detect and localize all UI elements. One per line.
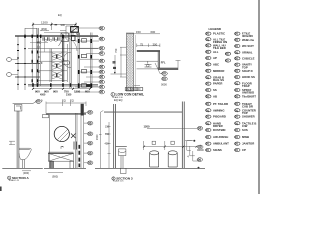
plan keynote bubble 1	[99, 26, 105, 30]
legend row BR1	[235, 102, 253, 109]
elevation keynote bubble 6	[84, 161, 93, 165]
elevation right pilaster dark	[81, 104, 84, 116]
svg-text:00: 00	[226, 52, 230, 56]
section A top line	[13, 102, 33, 104]
legend row R6	[235, 63, 253, 70]
svg-text:00: 00	[198, 127, 202, 131]
svg-text:WC SUIT: WC SUIT	[242, 44, 254, 48]
svg-text:00: 00	[235, 69, 239, 73]
svg-text:00: 00	[206, 102, 210, 106]
elevation left box	[43, 115, 49, 118]
svg-text:00: 00	[88, 141, 92, 145]
svg-text:WHB c/w: WHB c/w	[242, 38, 255, 42]
svg-text:00: 00	[235, 57, 239, 61]
interior line y32	[44, 32, 68, 34]
svg-text:AWNING: AWNING	[213, 108, 225, 112]
wc fixture 2	[82, 54, 87, 57]
elev2 left dim line	[99, 111, 103, 169]
legend row BR2	[235, 108, 256, 115]
elev2 long rail line	[104, 111, 182, 114]
section A top bubble	[36, 100, 41, 104]
detail drain trap	[145, 61, 152, 67]
svg-text:00: 00	[235, 63, 239, 67]
svg-text:HOOK SS: HOOK SS	[242, 75, 255, 79]
plan keynote leaders	[72, 28, 99, 92]
detail keynote bubble 1	[155, 63, 167, 76]
legend row BL5	[206, 128, 226, 132]
detail caption number	[111, 93, 115, 97]
elevation right wall lines	[76, 114, 77, 169]
plan keynote bubble 10	[99, 80, 105, 84]
svg-text:(450): (450)	[41, 27, 47, 31]
svg-text:00: 00	[235, 95, 239, 99]
svg-text:SUS: SUS	[242, 128, 248, 132]
svg-text:00: 00	[88, 132, 92, 136]
section A cistern box	[14, 105, 22, 112]
svg-text:150: 150	[105, 126, 110, 129]
wall stop valve 1	[152, 141, 155, 144]
fixture circles row	[45, 39, 57, 41]
svg-text:(300): (300)	[23, 171, 29, 175]
elev2 basin pipe	[121, 156, 123, 168]
section A dim ticks	[9, 141, 15, 144]
detail right dim riser	[176, 60, 181, 70]
plan keynote bubble 11	[99, 85, 105, 89]
floor drain circle	[37, 46, 39, 48]
svg-text:PT. T/HLDR: PT. T/HLDR	[213, 102, 228, 106]
svg-text:MIRROR: MIRROR	[213, 69, 224, 73]
section A wall double line	[17, 111, 19, 168]
svg-text:00: 00	[88, 151, 92, 155]
wall vertical double x70.5	[70, 33, 71, 89]
stall wall poche x91	[90, 39, 92, 88]
svg-text:1200: 1200	[144, 125, 150, 129]
svg-text:AB: AB	[213, 95, 217, 99]
vanity cabinet	[48, 153, 73, 161]
section A toilet pipe	[22, 160, 24, 169]
section A top leader	[33, 102, 36, 104]
legend row L10	[206, 88, 217, 92]
section A ground line	[2, 167, 43, 169]
detail left dim marks	[111, 47, 127, 77]
legend row BR3	[235, 115, 255, 119]
elevation keynote bubble 1	[84, 110, 93, 114]
svg-text:900: 900	[61, 23, 66, 27]
detail keynote bubble 2	[162, 77, 168, 81]
elev2 second dim line	[108, 122, 111, 168]
svg-text:00: 00	[206, 142, 210, 146]
svg-text:00: 00	[100, 52, 104, 56]
svg-text:00: 00	[162, 72, 166, 76]
stall partition row 3	[37, 70, 67, 72]
legend row BL1	[206, 102, 228, 106]
stall bowtie 3b	[52, 72, 62, 80]
stall partition row 4	[37, 80, 67, 82]
svg-text:00000: 00000	[197, 149, 204, 152]
left dimension vertical 2	[24, 28, 26, 90]
svg-text:00: 00	[100, 80, 104, 84]
vanity counter top	[48, 152, 73, 153]
detail drain circle	[147, 64, 150, 67]
stall bowtie 1	[52, 53, 62, 61]
elevation ground	[44, 167, 86, 169]
svg-text:00: 00	[206, 82, 210, 86]
detail counter top line	[137, 50, 160, 51]
svg-text:00: 00	[100, 37, 104, 41]
faucet symbol	[61, 146, 64, 149]
svg-text:Tile/SKIRT: Tile/SKIRT	[242, 95, 256, 99]
svg-text:JANITOR: JANITOR	[242, 142, 254, 146]
detail lower slab line	[158, 68, 178, 69]
svg-text:MWB: MWB	[242, 135, 249, 139]
elevation keynote bubble 4	[84, 141, 93, 145]
elev2 leader line	[147, 127, 197, 129]
legend row R9	[235, 81, 252, 88]
svg-text:00: 00	[36, 100, 40, 104]
elev2 right wall double	[182, 102, 184, 169]
svg-text:00: 00	[235, 115, 239, 119]
svg-text:AMBULANT: AMBULANT	[213, 142, 229, 146]
left keynote bubble 2	[6, 73, 18, 77]
legend row BL8	[206, 148, 222, 152]
partition vertical x67.4	[66, 44, 68, 82]
mid wall line	[28, 48, 98, 50]
svg-text:00: 00	[206, 128, 210, 132]
sheet border right edge	[258, 0, 259, 194]
legend mid bubble 2	[225, 59, 230, 63]
cylinder basin 1	[150, 151, 159, 167]
svg-text:75: 75	[140, 42, 144, 46]
elevation right wall lines 2	[81, 116, 84, 169]
svg-text:FFL: FFL	[161, 60, 166, 64]
svg-text:1200: 1200	[41, 20, 48, 24]
shaft box small	[72, 35, 76, 40]
svg-text:ALL: ALL	[213, 50, 219, 54]
svg-text:SCALE 1:25: SCALE 1:25	[113, 180, 123, 183]
legend row L8	[206, 75, 225, 82]
legend row R2	[235, 38, 255, 42]
elev2 basin body	[119, 149, 126, 156]
detail wall face line	[135, 35, 137, 91]
svg-text:EQ: EQ	[62, 99, 66, 103]
wall junction poche	[25, 35, 63, 38]
door leaf diagonal	[59, 37, 65, 46]
svg-text:0: 0	[41, 62, 43, 65]
elev2 right leader bubble	[197, 126, 202, 130]
svg-text:00: 00	[235, 135, 239, 139]
vanity under dim	[48, 172, 63, 174]
svg-text:AIR-FRESH: AIR-FRESH	[213, 135, 228, 139]
elev2 basin top	[116, 146, 127, 148]
svg-text:AP: AP	[213, 56, 217, 60]
svg-text:(900): (900)	[52, 175, 58, 179]
svg-text:00: 00	[206, 135, 210, 139]
wall stop valve 2	[171, 141, 174, 144]
left bold grid line B	[15, 76, 40, 78]
plan keynote bubble 5	[99, 52, 105, 56]
elevation wall x mark	[71, 134, 77, 150]
svg-text:00: 00	[100, 59, 104, 63]
stall wall poche x78.5	[78, 39, 80, 88]
svg-text:00: 00	[235, 32, 239, 36]
elev2 keynote bubble A	[185, 140, 195, 142]
svg-text:SD: SD	[76, 32, 80, 36]
legend row R7	[235, 69, 253, 73]
svg-text:600: 600	[151, 30, 156, 34]
svg-text:00: 00	[235, 121, 239, 125]
legend row BR6	[235, 135, 249, 139]
legend row BL3	[206, 115, 226, 119]
elevation left wall	[49, 115, 51, 169]
legend row R11	[235, 95, 257, 99]
svg-text:EQ EQ: EQ EQ	[114, 98, 123, 102]
svg-text:00: 00	[206, 56, 210, 60]
mirror circle	[54, 126, 69, 141]
elev2 keynote bubble B	[197, 145, 204, 152]
legend row L6	[206, 63, 219, 67]
svg-text:00: 00	[235, 102, 239, 106]
legend row BR7	[235, 142, 255, 146]
plan keynote bubble 4	[99, 46, 105, 50]
svg-text:00: 00	[100, 70, 104, 74]
svg-text:00: 00	[206, 108, 210, 112]
legend row R3	[235, 44, 254, 48]
wall vertical double x78.5	[78, 33, 80, 89]
elev2 keynote bubble C	[197, 158, 202, 162]
detail wall hatched band	[126, 33, 133, 91]
legend row R4	[235, 50, 253, 54]
svg-text:SECTION 3: SECTION 3	[116, 176, 133, 180]
legend row BR5	[235, 128, 248, 132]
elev2 ground line	[95, 167, 205, 169]
svg-text:00: 00	[235, 88, 239, 92]
vanity X brace 1	[48, 153, 73, 161]
plan keynote bubble 3	[99, 90, 105, 94]
door swing arc upper	[63, 37, 77, 51]
vertical x44.5	[44, 36, 46, 52]
detail base thin line	[137, 68, 159, 70]
detail left dot	[114, 72, 116, 74]
elev2 below-ground box	[121, 168, 127, 173]
elev2 mid dim line	[144, 146, 197, 148]
svg-text:PLASTIC: PLASTIC	[213, 32, 225, 36]
svg-text:00: 00	[162, 77, 166, 81]
svg-text:SOAP D: SOAP D	[242, 69, 253, 73]
svg-text:00: 00	[100, 65, 104, 69]
legend row BR4	[235, 121, 257, 128]
elevation wall dash blocks	[78, 145, 80, 167]
svg-text:00: 00	[198, 158, 202, 162]
left dimension vertical 1	[17, 36, 19, 90]
svg-text:CUBICLE: CUBICLE	[242, 57, 255, 61]
detail right tick y85	[134, 85, 140, 87]
svg-text:00: 00	[235, 44, 239, 48]
left bold grid line A	[15, 63, 40, 65]
svg-text:00: 00	[206, 115, 210, 119]
legend row R1	[235, 32, 254, 38]
svg-text:00: 00	[226, 59, 230, 63]
duct box dark	[71, 27, 79, 33]
elevation keynote bubble 2	[84, 121, 93, 125]
partition vertical double x63 dark	[62, 35, 63, 82]
plan keynote bubble 7	[99, 65, 105, 69]
svg-text:P/BOARD: P/BOARD	[213, 115, 226, 119]
svg-text:00: 00	[100, 85, 104, 89]
svg-text:00: 00	[88, 161, 92, 165]
svg-text:00: 00	[100, 46, 104, 50]
stall bowtie 3	[52, 72, 62, 80]
vanity pedestal right	[70, 161, 74, 168]
svg-text:9: 9	[41, 99, 43, 103]
svg-text:900: 900	[53, 90, 58, 94]
legend row L5	[206, 56, 217, 60]
svg-text:00: 00	[100, 75, 104, 79]
elevation keynote bubble 5	[84, 151, 93, 155]
ground poche ticks	[33, 83, 91, 87]
secondary dimension line	[40, 30, 66, 32]
svg-text:00: 00	[235, 128, 239, 132]
svg-text:00: 00	[206, 75, 210, 79]
svg-text:DUSTBIN: DUSTBIN	[213, 128, 225, 132]
elevation keynote bubble 3	[84, 132, 93, 136]
svg-text:00: 00	[235, 142, 239, 146]
section3 caption number	[112, 177, 115, 180]
legend row L3	[206, 44, 226, 51]
elev2 mid dim ticks	[143, 146, 198, 148]
svg-text:00: 00	[206, 37, 210, 41]
legend row R5	[235, 57, 255, 61]
svg-text:LEGEND: LEGEND	[209, 27, 222, 31]
corner mark bottom-left	[0, 187, 2, 192]
door swing half circle	[63, 52, 71, 68]
detail counter right drop	[158, 52, 159, 69]
elev2 dim risers	[144, 141, 165, 150]
legend row R10	[235, 88, 255, 95]
plan keynote bubble 6	[99, 59, 105, 63]
vanity pedestal left	[50, 161, 54, 168]
svg-text:00: 00	[206, 88, 210, 92]
svg-text:2100: 2100	[66, 93, 72, 96]
svg-text:00: 00	[100, 90, 104, 94]
svg-text:150: 150	[136, 30, 141, 34]
left keynote bubble 1	[6, 58, 18, 62]
svg-text:00: 00	[206, 148, 210, 152]
svg-text:00: 00	[235, 38, 239, 42]
top wall fixtures	[43, 37, 59, 41]
svg-text:SCALE 1:25: SCALE 1:25	[9, 179, 19, 182]
ground dark patch	[86, 84, 92, 87]
legend row R8	[235, 75, 255, 79]
svg-text:00: 00	[206, 50, 210, 54]
svg-text:00: 00	[206, 63, 210, 67]
legend row BL4	[206, 121, 223, 128]
wc fixture 1	[82, 39, 87, 42]
shaft diagonal	[61, 33, 69, 41]
bowtie tip ticks	[56, 55, 58, 77]
detail dim boxes row	[125, 88, 143, 91]
detail left tick blobs	[113, 62, 117, 69]
top dimension line	[33, 23, 76, 37]
elev2 step dims	[187, 141, 199, 162]
mirror hatch	[58, 130, 70, 142]
plan bottom dimension band	[32, 88, 91, 97]
svg-text:WC: WC	[37, 41, 41, 45]
svg-text:URINAL: URINAL	[242, 50, 253, 54]
wall vertical double x91	[91, 33, 93, 89]
svg-text:1200: 1200	[74, 90, 81, 94]
svg-text:EQ: EQ	[70, 99, 74, 103]
svg-text:00: 00	[235, 50, 239, 54]
svg-text:0: 0	[38, 71, 40, 74]
svg-text:00: 00	[206, 69, 210, 73]
urinal fixture rect	[63, 61, 70, 65]
main top wall line	[15, 36, 98, 37]
svg-text:600: 600	[85, 90, 90, 94]
legend row L1	[206, 32, 225, 36]
legend row BR8	[235, 148, 246, 152]
svg-text:SS: SS	[213, 88, 217, 92]
section A caption number	[8, 176, 11, 179]
svg-text:1500: 1500	[96, 134, 99, 140]
svg-text:PAPER: PAPER	[213, 82, 222, 86]
stall partition row 2	[37, 60, 67, 62]
plan keynote bubble 2	[99, 37, 105, 41]
svg-text:300: 300	[153, 42, 158, 46]
svg-text:400: 400	[105, 142, 110, 145]
left dim tick marks	[17, 36, 26, 84]
elevation keynote bubbles	[84, 110, 93, 165]
svg-text:00: 00	[206, 32, 210, 36]
wall vertical double x37.5	[37, 28, 38, 86]
svg-text:00: 00	[206, 121, 210, 125]
legend row L4	[206, 50, 219, 54]
duct box diagonal	[71, 27, 79, 33]
wall vertical x32	[31, 36, 33, 86]
wc fixture 4	[82, 84, 87, 87]
svg-text:CP: CP	[242, 148, 246, 152]
svg-text:0000: 0000	[161, 83, 167, 87]
legend row L9	[206, 82, 223, 86]
svg-text:ABC: ABC	[213, 63, 219, 67]
plan keynote bubbles	[99, 26, 105, 94]
interior line y42	[30, 42, 48, 44]
svg-text:4: 4	[187, 155, 189, 158]
section A bottom dim	[22, 170, 31, 172]
wall vertical x40.7	[40, 36, 42, 86]
svg-text:00: 00	[206, 95, 210, 99]
svg-text:750: 750	[114, 48, 118, 53]
svg-text:00: 00	[100, 26, 104, 30]
legend row BL2	[206, 108, 225, 112]
cylinder basin 2	[168, 151, 177, 167]
plan keynote bubble 8	[99, 70, 105, 74]
svg-text:00: 00	[88, 121, 92, 125]
detail shelf thin line	[137, 60, 159, 62]
stall bowtie 1b	[52, 53, 62, 61]
svg-text:0: 0	[38, 56, 40, 59]
top dimension ticks	[32, 24, 77, 26]
legend row BL6	[206, 135, 229, 139]
plan keynote bubble 9	[99, 75, 105, 79]
svg-text:4500: 4500	[40, 93, 46, 96]
legend mid bubble	[225, 52, 230, 56]
top step corner	[25, 26, 73, 35]
svg-text:850: 850	[105, 133, 110, 136]
legend row L11	[206, 95, 217, 99]
svg-text:00: 00	[235, 148, 239, 152]
legend row BL7	[206, 142, 230, 146]
svg-text:SIGNS: SIGNS	[213, 148, 222, 152]
